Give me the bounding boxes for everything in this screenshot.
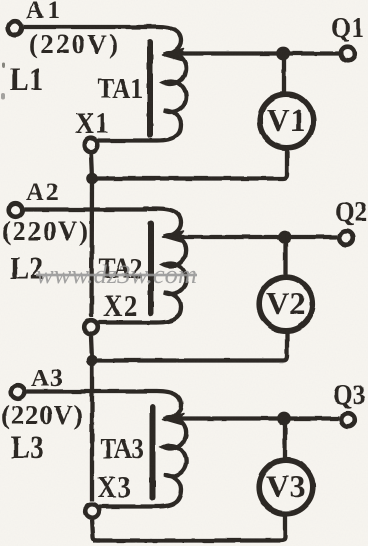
terminal A3 (11, 385, 25, 399)
terminal Q1 (341, 47, 355, 61)
junction node under X1 (86, 173, 98, 185)
wire: TA3 wiper to terminal Q3 (179, 416, 340, 420)
wire: V2 bottom return line to X2 (92, 332, 287, 361)
wiper arrowhead of TA3 (163, 414, 184, 426)
wiper arrowhead of TA2 (163, 231, 184, 243)
common neutral bus: X2 junction down to X3 terminal (90, 361, 94, 502)
terminal Q3 (341, 413, 355, 427)
wire: terminal A2 to TA2 winding top (24, 207, 147, 211)
terminal A1 (8, 21, 22, 35)
terminal X2 (84, 320, 98, 334)
junction node: wiper wire / V3 / Q3 (277, 412, 291, 426)
common neutral bus: X3 terminal down to bottom corner (92, 518, 100, 541)
wire: terminal A1 to TA1 winding top (24, 25, 147, 29)
wire: X1 terminal down to junction (91, 154, 92, 179)
junction node under X2 (86, 355, 98, 367)
common neutral bus: X1 junction down to X2 terminal (89, 179, 94, 318)
autotransformer TA2 winding (99, 209, 186, 323)
terminal X1 (84, 138, 98, 152)
voltmeter V3 (259, 460, 313, 514)
wire: TA1 wiper to terminal Q1 (179, 51, 340, 55)
wire: junction down to V3 top (283, 419, 287, 459)
wire: TA2 wiper to terminal Q2 (179, 235, 338, 239)
terminal X3 (85, 504, 99, 518)
wire: junction down to V2 top (283, 237, 287, 275)
autotransformer TA3 winding (100, 391, 186, 507)
autotransformer TA1 winding (99, 27, 186, 141)
terminal Q2 (339, 231, 353, 245)
terminal A2 (9, 203, 23, 217)
wiper arrowhead of TA1 (163, 49, 184, 61)
TA3 core bar (150, 407, 156, 498)
wire: V1 bottom return line to X1 (92, 149, 287, 179)
wire: X2 terminal down to junction (91, 336, 92, 361)
TA1 core bar (147, 42, 153, 135)
ink speck (2, 63, 5, 68)
voltmeter V1 (260, 94, 314, 148)
ink speck (1, 93, 5, 99)
wire: junction down to V1 top (282, 54, 286, 93)
junction node: wiper wire / V2 / Q2 (278, 230, 292, 244)
voltmeter V2 (259, 277, 313, 331)
junction node: wiper wire / V1 / Q1 (276, 47, 290, 61)
wire: V3 bottom return line to X3 (93, 515, 285, 541)
wire: terminal A3 to TA3 winding top (27, 389, 147, 393)
TA2 core bar (148, 223, 154, 313)
